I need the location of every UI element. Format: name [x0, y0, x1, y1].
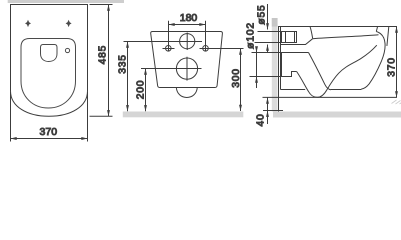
svg-text:485: 485 — [98, 45, 109, 65]
svg-text:335: 335 — [117, 54, 128, 74]
dim 485 extension bottom — [90, 115, 113, 117]
oe55 extension bottom — [255, 42, 282, 44]
bolt hole left — [166, 46, 172, 52]
svg-text:370: 370 — [386, 57, 397, 77]
svg-text:ø102: ø102 — [246, 22, 257, 49]
toilet outer outline — [11, 5, 88, 117]
back channel upper line — [281, 39, 313, 45]
fixing mark right — [66, 20, 72, 27]
toilet back line — [280, 27, 282, 90]
inlet socket cap line — [294, 32, 296, 43]
floor slab right segment — [273, 112, 401, 118]
dim 180 line — [169, 24, 206, 26]
dim 180 arrow left — [169, 23, 175, 26]
back cavity slant — [309, 53, 332, 90]
dim 485 arrow down — [107, 110, 110, 116]
fixing mark left — [25, 20, 31, 27]
seat top line — [313, 35, 379, 39]
oe55 extension top — [258, 31, 282, 33]
drain pocket bottom / oe102 bottom extension — [250, 72, 297, 77]
oe55 dim line upper — [267, 4, 269, 30]
dim 335 arrow down — [126, 105, 129, 111]
dim 200 arrow down — [144, 105, 147, 111]
inlet socket inner line — [285, 32, 287, 43]
outlet bump below — [176, 88, 197, 98]
bottom line right — [331, 89, 362, 91]
dim 370 arrow left — [11, 137, 17, 140]
dim 485 arrow up — [107, 5, 110, 11]
lid back curve — [310, 27, 313, 39]
dim 300 arrow up — [239, 49, 242, 55]
front profile curve — [361, 32, 385, 90]
bottom line left — [281, 89, 306, 91]
svg-text:200: 200 — [136, 80, 147, 100]
dim 40 line — [267, 97, 269, 124]
back channel lower line / oe102 top extension — [252, 52, 309, 54]
lid front edge — [376, 27, 377, 32]
bolt hole right tick / 300 extension — [200, 48, 244, 50]
dim 370 extension left — [10, 92, 12, 142]
flush opening — [41, 45, 58, 62]
dim 180 extension left — [168, 21, 170, 52]
drain circle — [176, 58, 197, 79]
water inlet circle — [180, 34, 195, 49]
dim 370 side arrow down — [395, 91, 398, 97]
tank body trapezoid — [151, 32, 223, 88]
floor level extension — [263, 110, 283, 112]
bowl cavity swoosh — [297, 45, 377, 97]
drain circle vertical crosshair — [186, 57, 188, 81]
toilet top / 370 extension line — [278, 26, 397, 28]
dim 300 arrow down — [239, 105, 242, 111]
dim 200 arrow up — [144, 69, 147, 75]
inlet circle vertical crosshair — [186, 33, 188, 51]
dim 335 line — [127, 42, 129, 112]
dim 335 arrow up — [126, 42, 129, 48]
wall surface line — [278, 27, 280, 112]
dim 40 arrow up (top) — [266, 98, 269, 104]
faint floor hatching far right — [392, 100, 401, 104]
dim 370 (side) line — [396, 27, 398, 98]
inlet socket rectangle — [282, 32, 297, 43]
oe55 arrow down — [266, 23, 269, 29]
oe102 arrow up — [255, 77, 258, 83]
seat/bowl outline — [21, 39, 76, 109]
drain crosshair / 200 extension line — [141, 68, 202, 70]
bottom extension line (lowest point) — [263, 96, 398, 98]
svg-text:40: 40 — [256, 113, 267, 126]
dim 200 line — [145, 69, 147, 112]
dim 485 extension top — [90, 4, 113, 6]
dim 370 arrow right — [81, 137, 87, 140]
dim 180 arrow right — [199, 23, 205, 26]
inlet crosshair / 335 extension line — [124, 41, 203, 43]
lid hinge line — [387, 27, 389, 46]
svg-text:ø55: ø55 — [256, 4, 267, 24]
flush pipe stub above (grey) — [272, 18, 278, 27]
svg-text:300: 300 — [231, 68, 242, 88]
top grey band artifact — [8, 0, 124, 3]
wall (grey vertical band, side view) — [272, 18, 278, 112]
bolt hole right — [203, 46, 209, 52]
dim 180 extension right — [205, 21, 207, 52]
dim 370 side arrow up — [395, 27, 398, 33]
svg-text:180: 180 — [180, 12, 198, 24]
bolt hole left tick — [163, 48, 175, 50]
svg-text:370: 370 — [40, 126, 58, 138]
small inlet hole — [65, 48, 69, 52]
dim 300 line — [240, 49, 242, 112]
dim 40 arrow up (bottom, outside) — [266, 111, 269, 117]
oe102 dim line — [256, 49, 258, 89]
dim 370 extension right — [87, 92, 89, 142]
oe55 arrow up — [266, 45, 269, 51]
dim 485 line — [108, 5, 110, 117]
floor slab left segment — [123, 112, 244, 118]
dim 370 line — [11, 138, 88, 140]
drain pocket — [281, 53, 283, 77]
oe102 arrow down — [255, 46, 258, 52]
oe55 dim line lower — [267, 45, 269, 53]
